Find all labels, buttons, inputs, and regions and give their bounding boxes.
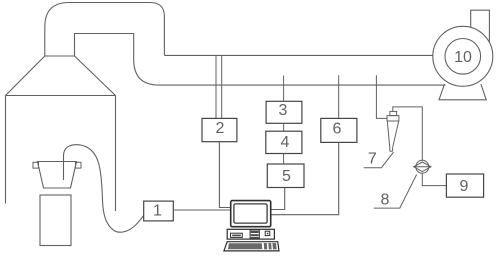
bucket ear right [76,162,82,168]
cyclone cap [390,111,397,115]
leader line 7 [364,152,394,168]
bucket ear left [33,162,39,168]
pump circle [416,160,429,173]
box 1 [144,201,174,221]
svg-text:9: 9 [460,178,469,195]
case floppy slot [231,233,243,237]
svg-text:1: 1 [153,203,162,220]
wire box1 to monitor [173,209,230,211]
box 2 [202,118,237,141]
chamber right wall [115,96,117,212]
probe lines of box 2 [216,55,222,118]
wire box4 to box5 [283,154,285,165]
box 6 [321,118,357,142]
computer case [227,229,274,239]
fan outlet duct [471,10,490,42]
cyclone body [387,116,399,121]
svg-text:6: 6 [333,121,342,138]
fan inner circle [445,39,481,75]
svg-text:5: 5 [282,168,291,185]
fan outer circle [433,26,493,86]
wire box5 to monitor [271,188,285,210]
case drive bays [250,230,259,239]
wire box3 to box4 [283,123,285,131]
pump diamond [414,162,431,172]
keyboard right key block 3 [272,243,276,249]
duct upper horizontal line [164,54,433,56]
svg-text:7: 7 [368,151,377,168]
tube from bucket to box 1 [64,145,144,233]
wire box2 to monitor [219,142,230,208]
svg-text:8: 8 [380,191,389,208]
chamber left wall [5,96,7,204]
duct inner line [75,34,160,86]
computer monitor outer [231,201,271,227]
keyboard right key block 2 [268,243,271,249]
cyclone inlet drop line [376,75,387,118]
duct outer line [45,3,165,57]
case power button [265,231,270,235]
hood right slope [75,56,116,96]
wire pump to box 9 [422,173,446,185]
keyboard outline [224,242,279,251]
bucket body [38,162,77,189]
fan base trapezoid [439,84,486,100]
keyboard right key block 1 [264,243,268,249]
chamber top edge [6,95,116,97]
svg-text:10: 10 [454,49,472,66]
pump horizontal line [414,166,431,168]
probe line of box 6 [338,75,340,118]
svg-text:2: 2 [216,120,225,137]
probe line of box 3 [283,76,285,102]
leader line 8 [374,175,417,209]
duct lower horizontal line [159,84,446,86]
cyclone tip [390,148,393,152]
cyclone cone [387,121,398,148]
wire box6 to monitor [271,142,339,214]
hood left slope [6,56,45,96]
box 5 [267,164,304,188]
cyclone outlet line to pump [393,107,423,160]
computer monitor screen [234,204,267,223]
box 3 [266,101,302,123]
svg-text:3: 3 [279,102,288,119]
box 9 [446,174,483,197]
box 4 [266,131,302,153]
svg-text:4: 4 [280,134,289,151]
hood canopy shoulder [45,55,75,57]
keyboard main keys [228,243,262,249]
stand rectangle [40,195,71,246]
